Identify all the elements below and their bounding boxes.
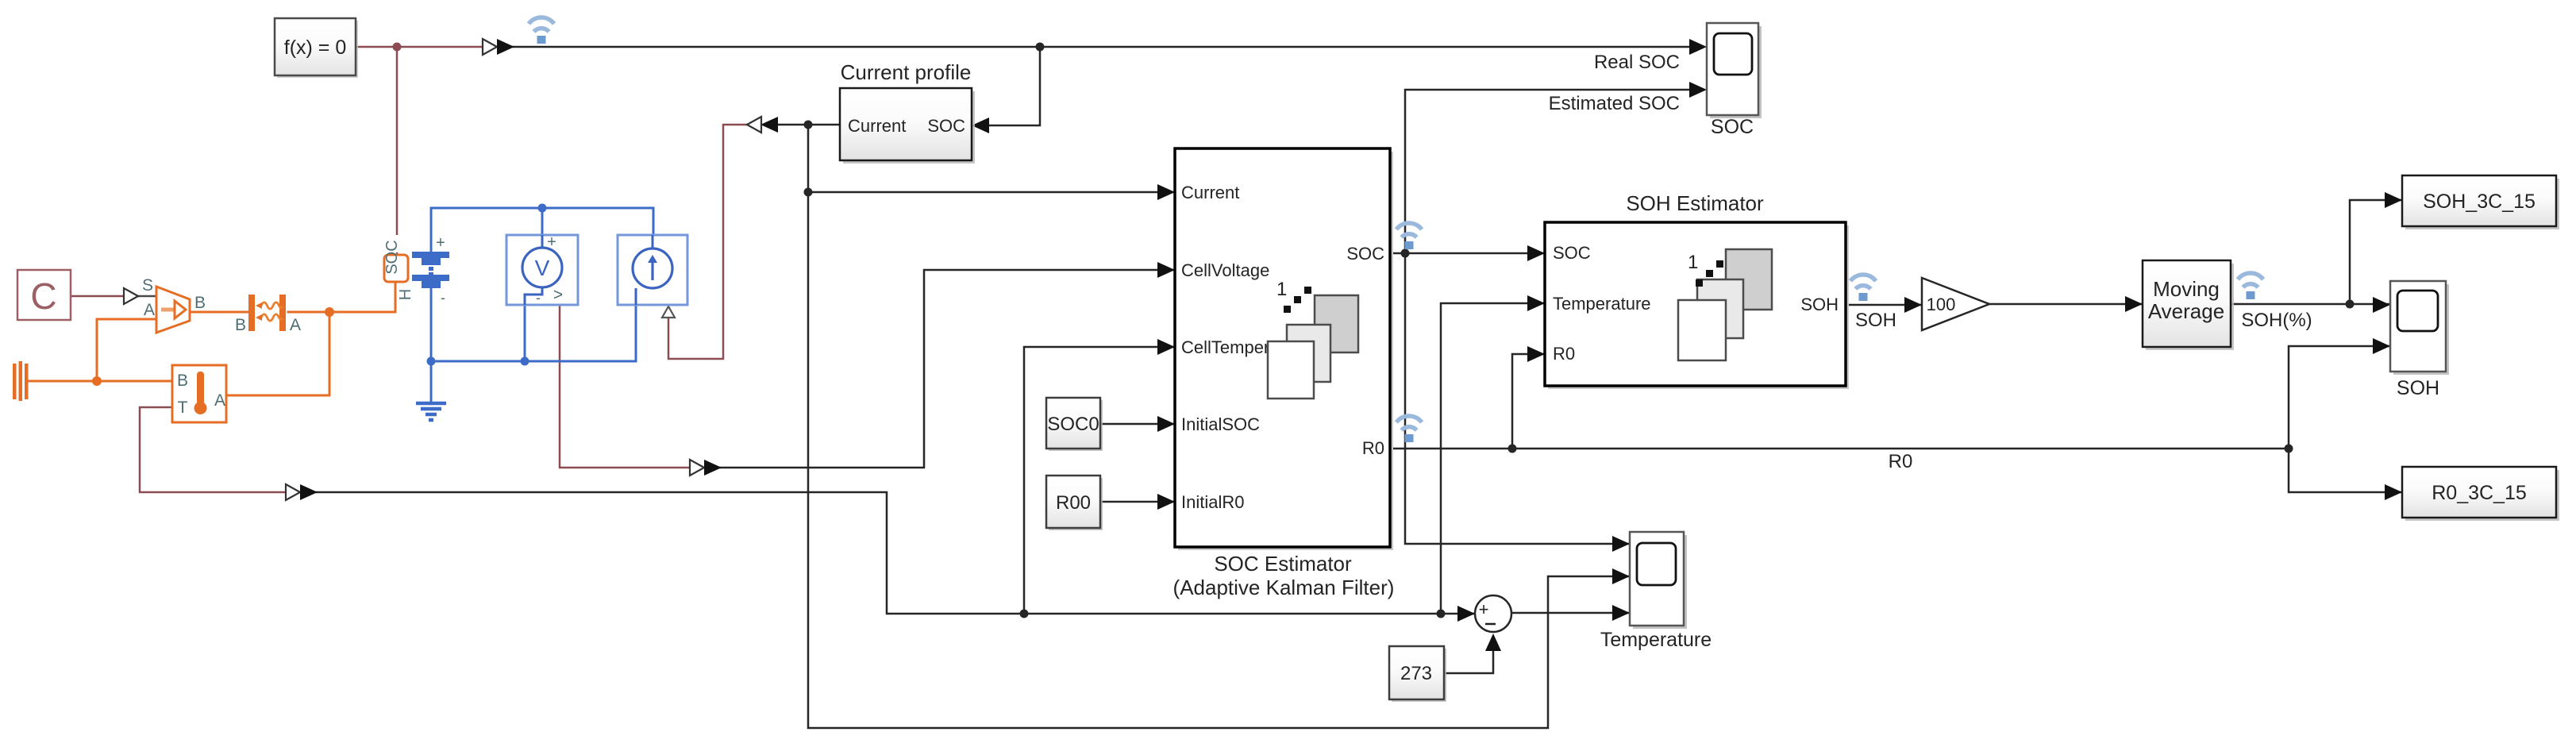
wire: R00 to InitialR0	[1100, 501, 1173, 503]
converter: hollow triangle on cell voltage	[690, 460, 704, 476]
svg-text:100: 100	[1927, 295, 1956, 314]
arrowhead: into SOH Estimator R0	[1527, 346, 1545, 362]
wire: temperature branch to CellTemperature input	[1024, 347, 1173, 614]
svg-text:Current: Current	[1181, 183, 1239, 202]
junction: top line to Current profile	[1036, 43, 1045, 52]
junction: R0 node right	[2285, 445, 2293, 453]
wire: heat source B to conduction block	[191, 311, 250, 314]
wire: sum output to Temperature scope input 3	[1511, 612, 1628, 614]
converter: hollow triangle on temperature	[286, 484, 300, 500]
svg-text:Current profile: Current profile	[841, 60, 972, 84]
arrowhead: into sum bottom input (up)	[1485, 634, 1501, 651]
junction: SOC output node	[1401, 249, 1410, 258]
svg-text:V: V	[535, 256, 550, 280]
svg-text:A: A	[144, 301, 155, 319]
battery cell symbol	[412, 252, 449, 288]
svg-text:InitialR0: InitialR0	[1181, 492, 1244, 512]
arrowhead: start of real SOC line	[497, 39, 514, 55]
wire: voltage sensor minus lead	[524, 305, 526, 361]
wire: temperature measurement (physical)	[140, 407, 288, 492]
wire: current into SOC Estimator	[808, 191, 1173, 194]
arrowhead: into SOC Estimator CellVoltage	[1157, 262, 1175, 278]
junction: f(x)=0 / battery SOC node	[393, 43, 402, 52]
wire: real SOC top line to SOC scope	[513, 46, 1692, 48]
svg-text:+: +	[1479, 599, 1489, 619]
arrowhead: temperature line	[300, 484, 318, 500]
svg-text:SOC: SOC	[1711, 116, 1754, 138]
wire: Current profile output leftward	[774, 124, 840, 126]
svg-text:T: T	[178, 399, 188, 417]
block constant C	[17, 270, 71, 320]
svg-text:Moving: Moving	[2153, 277, 2220, 301]
arrowhead: into SOC Estimator Current	[1157, 184, 1175, 200]
wire: Moving Average output to SOH scope input 1	[2231, 303, 2389, 306]
svg-text:C: C	[30, 275, 56, 317]
wire: SOC0 to InitialSOC	[1100, 423, 1173, 426]
block conductive heat transfer	[248, 295, 286, 331]
block Moving Average	[2143, 260, 2234, 350]
wire: constant C to S converter	[71, 295, 126, 298]
arrowhead: into SOH scope input 2	[2373, 338, 2390, 354]
wire: temperature signal to sum	[313, 492, 1473, 614]
svg-text:SOC0: SOC0	[1047, 414, 1099, 435]
junction: bottom bus at voltage sensor	[521, 357, 529, 366]
svg-text:SOH Estimator: SOH Estimator	[1626, 191, 1764, 215]
block thermal reference	[13, 361, 29, 401]
junction: current signal node upper	[804, 121, 813, 129]
icon stacked models in SOH Estimator	[1678, 249, 1772, 360]
wire: f(x)=0 output (physical network)	[356, 46, 485, 48]
svg-text:-: -	[441, 290, 445, 306]
wire: current source top lead	[653, 208, 655, 235]
svg-text:SOH: SOH	[1855, 310, 1896, 331]
wireless icon on SOH(%) line	[2238, 273, 2263, 299]
converter: hollow triangle on current command	[747, 117, 761, 133]
block SOC0 constant	[1046, 398, 1103, 451]
arrowhead: into sum left input	[1457, 606, 1475, 622]
svg-text:R0: R0	[1362, 438, 1384, 458]
wire: thermal node H	[329, 282, 395, 312]
wire: current source bottom lead	[635, 306, 637, 361]
wire: R0 output long line	[1390, 448, 2289, 450]
junction: thermal reference node	[92, 376, 102, 386]
arrowhead: into Temperature scope input 2	[1612, 568, 1630, 584]
converter: hollow triangle at constant C	[124, 288, 138, 304]
svg-text:SOC: SOC	[383, 240, 401, 274]
arrowhead: into Temperature scope input 3	[1612, 605, 1630, 621]
junction: thermal node	[325, 307, 334, 317]
arrowhead: into R0_3C_15	[2385, 484, 2402, 500]
arrowhead: into SOH_3C_15	[2385, 192, 2402, 208]
svg-text:SOH: SOH	[1800, 295, 1839, 314]
arrowhead: into SOH Estimator Temperature	[1527, 295, 1545, 311]
arrowhead: into SOC Estimator InitialSOC	[1157, 416, 1175, 432]
block gain 100	[1922, 278, 1989, 330]
wireless icon on SOC output	[1396, 223, 1422, 249]
block R00 constant	[1046, 476, 1103, 530]
arrowhead: into SOC scope input 1	[1689, 39, 1707, 55]
block f(x)=0 solver configuration	[275, 18, 358, 78]
svg-text:A: A	[214, 391, 225, 410]
wire: thermal branch to heat source A	[97, 319, 156, 381]
wire: branch down to Current profile SOC input	[986, 47, 1040, 125]
svg-text:Estimated SOC: Estimated SOC	[1549, 93, 1680, 114]
icon stacked models in SOC Estimator	[1268, 279, 1358, 399]
block SOH_3C_15	[2402, 175, 2559, 229]
wire: thermal node main run right of conduction block	[288, 311, 329, 314]
svg-text:InitialSOC: InitialSOC	[1181, 414, 1260, 434]
wire: estimated SOC to scope	[1405, 90, 1692, 252]
wire: gain output to Moving Average	[1989, 303, 2141, 306]
arrowhead: into Moving Average	[2125, 296, 2143, 312]
wire: cell voltage to CellVoltage input	[717, 270, 1173, 468]
junction: top bus at voltage sensor	[538, 204, 547, 213]
wire: current signal down to bottom feedback and to Temperature scope input 2	[808, 125, 1628, 728]
block R0_3C_15	[2402, 467, 2559, 521]
svg-text:B: B	[235, 316, 246, 334]
wire: 273 constant into sum bottom	[1444, 645, 1493, 673]
svg-text:Average: Average	[2148, 299, 2224, 323]
svg-text:Current: Current	[848, 116, 906, 136]
wire: branch up to SOH_3C_15	[2350, 200, 2401, 304]
block sum	[1475, 595, 1511, 632]
block controlled current source	[618, 235, 687, 305]
junction: bottom bus at ground	[427, 357, 436, 366]
arrowhead: into Current profile SOC input (left)	[972, 117, 989, 133]
arrowhead: into SOH Estimator SOC	[1527, 245, 1545, 261]
svg-text:R0_3C_15: R0_3C_15	[2432, 482, 2527, 504]
arrowhead: into Temperature scope input 1	[1612, 536, 1630, 552]
svg-text:SOH(%): SOH(%)	[2241, 310, 2312, 331]
block 273 constant	[1389, 646, 1446, 702]
block Current profile	[840, 88, 975, 164]
svg-text:1: 1	[1276, 279, 1287, 300]
svg-text:SOC: SOC	[1553, 243, 1591, 263]
arrowhead: into SOC scope input 2	[1689, 82, 1707, 98]
block Temperature scope	[1630, 532, 1687, 629]
svg-text:R00: R00	[1056, 492, 1091, 514]
svg-text:H: H	[397, 289, 414, 300]
block voltage sensor	[506, 233, 578, 306]
block temperature sensor	[172, 365, 226, 422]
svg-text:SOC: SOC	[927, 116, 965, 136]
wire: battery SOC physical signal up	[396, 47, 399, 255]
svg-text:f(x) = 0: f(x) = 0	[284, 37, 347, 59]
wire: electrical top bus	[431, 207, 653, 210]
converter: hollow triangle after f(x)=0 node	[483, 39, 497, 55]
junction: temperature node to SOH Estimator	[1437, 610, 1446, 618]
wire: thermal reference to sensor B	[28, 380, 172, 383]
svg-text:-: -	[536, 290, 541, 306]
svg-text:1: 1	[1688, 252, 1698, 273]
arrowhead: into SOC Estimator CellTemperature	[1157, 339, 1175, 355]
wire: electrical bottom bus	[431, 360, 636, 363]
arrowhead: into SOH scope input 1	[2373, 297, 2390, 313]
wire: ground stem	[430, 361, 433, 402]
svg-text:CellVoltage: CellVoltage	[1181, 260, 1269, 280]
svg-text:>: >	[553, 286, 563, 304]
junction: temperature node to CellTemperature	[1020, 610, 1029, 618]
arrowhead: into SOC Estimator InitialR0	[1157, 494, 1175, 510]
wireless icon on real SOC line	[529, 17, 554, 44]
svg-text:SOH_3C_15: SOH_3C_15	[2423, 191, 2536, 213]
arrowhead: Current profile output (left)	[760, 117, 778, 133]
wire: SOH output to gain	[1846, 304, 1920, 306]
junction: R0 node at SOH Estimator	[1508, 445, 1517, 453]
svg-text:R0: R0	[1553, 344, 1575, 364]
wire: R0 branch to R0_3C_15	[2289, 449, 2401, 492]
wireless icon on SOH output	[1850, 275, 1876, 301]
wire: SOC branch down to Temperature scope input 1	[1405, 253, 1628, 544]
arrowhead: into gain	[1904, 297, 1922, 313]
svg-text:S: S	[142, 276, 153, 295]
wire: voltage sensor plus lead	[541, 208, 544, 235]
svg-text:+: +	[436, 234, 445, 252]
wire: R0 branch to SOH scope input 2	[2289, 346, 2389, 449]
svg-text:Temperature: Temperature	[1600, 629, 1712, 651]
svg-text:R0: R0	[1889, 451, 1913, 472]
wire: controlled current source physical input	[668, 125, 747, 359]
junction: SOH(%) node	[2346, 300, 2355, 309]
wire: S converter stub to heat source	[138, 295, 156, 298]
svg-text:SOC Estimator: SOC Estimator	[1214, 552, 1352, 576]
block controlled heat flow source	[156, 287, 190, 333]
wireless icon on R0 output	[1396, 416, 1422, 442]
svg-text:A: A	[290, 316, 301, 334]
arrowhead: cell voltage line	[704, 460, 722, 476]
svg-text:SOC: SOC	[1346, 244, 1384, 264]
wire: cell voltage measurement (physical)	[560, 305, 692, 468]
svg-text:(Adaptive Kalman Filter): (Adaptive Kalman Filter)	[1173, 576, 1395, 599]
svg-text:Real SOC: Real SOC	[1594, 52, 1680, 73]
block SOC Estimator subsystem	[1175, 148, 1393, 550]
battery SOC port box	[383, 235, 408, 282]
svg-text:273: 273	[1400, 663, 1432, 684]
svg-text:SOH: SOH	[2397, 377, 2439, 399]
wire: R0 branch up into SOH Estimator R0 input	[1512, 354, 1543, 449]
ground electrical	[416, 403, 446, 420]
block SOC scope	[1707, 23, 1762, 118]
wire: battery positive riser	[430, 208, 433, 252]
svg-text:Temperature: Temperature	[1553, 294, 1651, 314]
block SOH scope	[2390, 281, 2449, 375]
svg-text:B: B	[194, 294, 206, 312]
port: physical signal input triangle of current source	[662, 306, 675, 318]
junction: current signal node at SOC Estimator input	[804, 188, 813, 197]
wire: battery negative lead	[430, 287, 433, 361]
svg-text:B: B	[177, 372, 188, 390]
wire: temperature branch to SOH Estimator	[1441, 303, 1543, 614]
wire: SOC output to SOH Estimator	[1390, 252, 1543, 255]
wire: thermal node down to temperature sensor A	[226, 312, 329, 395]
block SOH Estimator subsystem	[1545, 222, 1849, 389]
svg-text:+: +	[547, 233, 556, 251]
